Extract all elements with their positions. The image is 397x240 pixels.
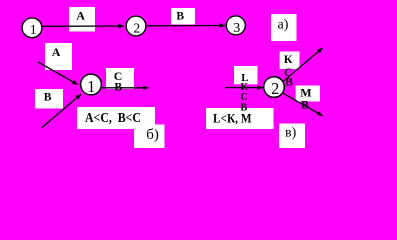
node 1 (top chain) bbox=[22, 18, 42, 38]
svg-text:А: А bbox=[76, 9, 85, 23]
label box A (diagram b, upper-left) bbox=[45, 43, 72, 70]
svg-text:В: В bbox=[176, 11, 184, 23]
arrow work A into node1 (diagram b) bbox=[38, 62, 78, 85]
label box C/B (diagram b, right) bbox=[106, 68, 134, 89]
caption box a) bbox=[271, 14, 297, 41]
label box A (top chain) bbox=[69, 7, 95, 32]
label box B (diagram b, lower-left) bbox=[35, 89, 63, 109]
caption box b) bbox=[134, 125, 165, 149]
svg-text:А: А bbox=[52, 45, 61, 59]
svg-text:L<К, М: L<К, М bbox=[213, 112, 252, 126]
label box B (top chain) bbox=[171, 8, 195, 25]
svg-text:3: 3 bbox=[233, 21, 240, 36]
arrow work K out of node2 (diagram v) bbox=[283, 48, 323, 82]
label box M (diagram v) bbox=[296, 86, 321, 102]
node 3 (top chain) bbox=[226, 16, 245, 35]
svg-text:М: М bbox=[300, 86, 311, 100]
node 2 (top chain) bbox=[126, 16, 146, 36]
svg-text:1: 1 bbox=[87, 77, 95, 96]
svg-text:2: 2 bbox=[133, 20, 140, 35]
arrow work L into node2 (diagram v) bbox=[225, 87, 263, 89]
svg-text:2: 2 bbox=[271, 79, 279, 98]
arrow work B: node2->node3 bbox=[147, 25, 225, 27]
node 2 (diagram v) bbox=[264, 77, 285, 98]
svg-text:К: К bbox=[284, 52, 293, 66]
svg-text:А<С, В<С: А<С, В<С bbox=[85, 110, 141, 125]
svg-text:в): в) bbox=[285, 125, 297, 140]
node 1 (diagram b) bbox=[81, 74, 102, 95]
svg-text:В: В bbox=[114, 82, 122, 94]
condition box A<C, B<C bbox=[77, 107, 155, 129]
arrow work M out of node2 (diagram v) bbox=[283, 93, 322, 115]
arrow work A: node1->node2 bbox=[42, 25, 124, 27]
arrow work C out of node1 (diagram b) bbox=[102, 87, 148, 89]
label box K (diagram v) bbox=[280, 52, 300, 70]
caption box v) bbox=[279, 124, 305, 149]
svg-text:В: В bbox=[301, 99, 309, 111]
svg-text:В: В bbox=[44, 91, 52, 103]
svg-text:б): б) bbox=[146, 127, 159, 143]
condition box L<K, M bbox=[206, 108, 274, 129]
label box L (diagram v) bbox=[234, 66, 258, 84]
svg-text:а): а) bbox=[278, 17, 289, 32]
svg-text:1: 1 bbox=[30, 23, 37, 38]
arrow work B into node1 (diagram b) bbox=[42, 94, 81, 127]
svg-text:В: В bbox=[285, 76, 293, 88]
